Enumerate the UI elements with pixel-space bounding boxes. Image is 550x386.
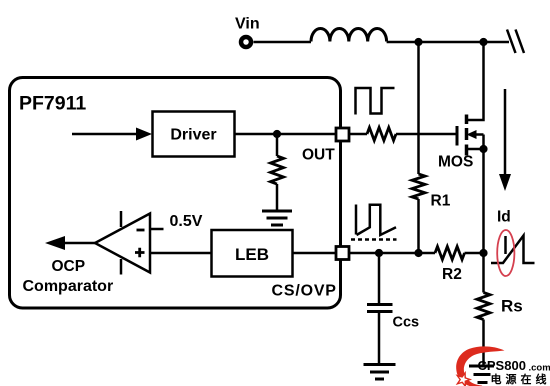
block LEB — [212, 230, 293, 277]
wire — [465, 252, 484, 255]
inductor L — [311, 28, 387, 41]
svg-text:CPS800: CPS800 — [478, 358, 526, 373]
ground — [364, 365, 396, 380]
junction — [479, 38, 487, 46]
wire (to MOS gate) — [396, 133, 457, 136]
wire (comparator output arrow) — [62, 242, 95, 245]
resistor (OUT pull-down) — [276, 134, 279, 156]
svg-text:Rs: Rs — [501, 297, 523, 316]
capacitor Ccs — [378, 253, 381, 304]
svg-text:PF7911: PF7911 — [19, 93, 86, 115]
junction — [273, 130, 281, 138]
junction — [414, 38, 422, 46]
wire — [293, 252, 337, 255]
svg-text:Comparator: Comparator — [23, 278, 114, 295]
svg-text:OUT: OUT — [302, 146, 335, 163]
ground — [469, 366, 494, 383]
terminal Vin — [241, 37, 251, 47]
svg-text:0.5V: 0.5V — [170, 213, 203, 230]
resistor R2 — [435, 247, 465, 260]
wire (OUT to gate resistor) — [349, 133, 367, 136]
highlight ellipse — [497, 230, 514, 276]
junction — [479, 249, 487, 257]
pin CS/OVP — [336, 247, 349, 260]
waveform (OUT square wave) — [356, 88, 395, 115]
wire (minus input stub) — [150, 228, 164, 231]
svg-text:Ccs: Ccs — [393, 315, 420, 331]
svg-text:CS/OVP: CS/OVP — [272, 282, 337, 299]
waveform (Id current) — [491, 236, 535, 264]
ground — [262, 211, 292, 225]
block Driver — [153, 112, 235, 157]
wire — [387, 41, 509, 44]
op-amp U1 OCP comparator — [95, 214, 150, 273]
wire (source down) — [482, 149, 485, 253]
current arrow Id — [504, 89, 507, 176]
continuation slashes — [507, 30, 524, 54]
wire (Rs bottom lead) — [482, 320, 485, 367]
svg-text:Vin: Vin — [235, 16, 260, 33]
transistor MOS — [456, 126, 459, 146]
pin OUT — [336, 128, 349, 141]
junction — [375, 249, 383, 257]
svg-text:MOS: MOS — [438, 154, 473, 171]
IC PF7911 box — [10, 78, 341, 309]
wire CS row — [349, 252, 435, 255]
svg-text:R2: R2 — [442, 266, 462, 283]
svg-text:Driver: Driver — [170, 127, 216, 144]
junction — [414, 249, 422, 257]
svg-text:OCP: OCP — [52, 258, 86, 275]
svg-text:电源在线: 电源在线 — [491, 372, 550, 386]
wire (R1 top lead) — [417, 42, 420, 174]
wire (plus input to LEB) — [150, 252, 212, 255]
resistor Rs — [477, 293, 490, 320]
svg-text:.com: .com — [529, 362, 550, 373]
wire (R1 bottom lead) — [417, 199, 420, 253]
svg-text:R1: R1 — [431, 193, 451, 210]
waveform (CS pin) — [355, 205, 358, 235]
wire — [254, 41, 312, 44]
svg-text:Id: Id — [497, 209, 511, 226]
wire (driver input arrow) — [72, 133, 138, 136]
watermark logo swoosh — [456, 346, 504, 386]
wire — [235, 133, 337, 136]
watermark star — [457, 373, 470, 386]
wire (Rs top lead) — [482, 253, 485, 293]
resistor (gate) — [367, 128, 396, 141]
resistor R1 — [412, 174, 425, 199]
svg-text:LEB: LEB — [235, 245, 269, 264]
